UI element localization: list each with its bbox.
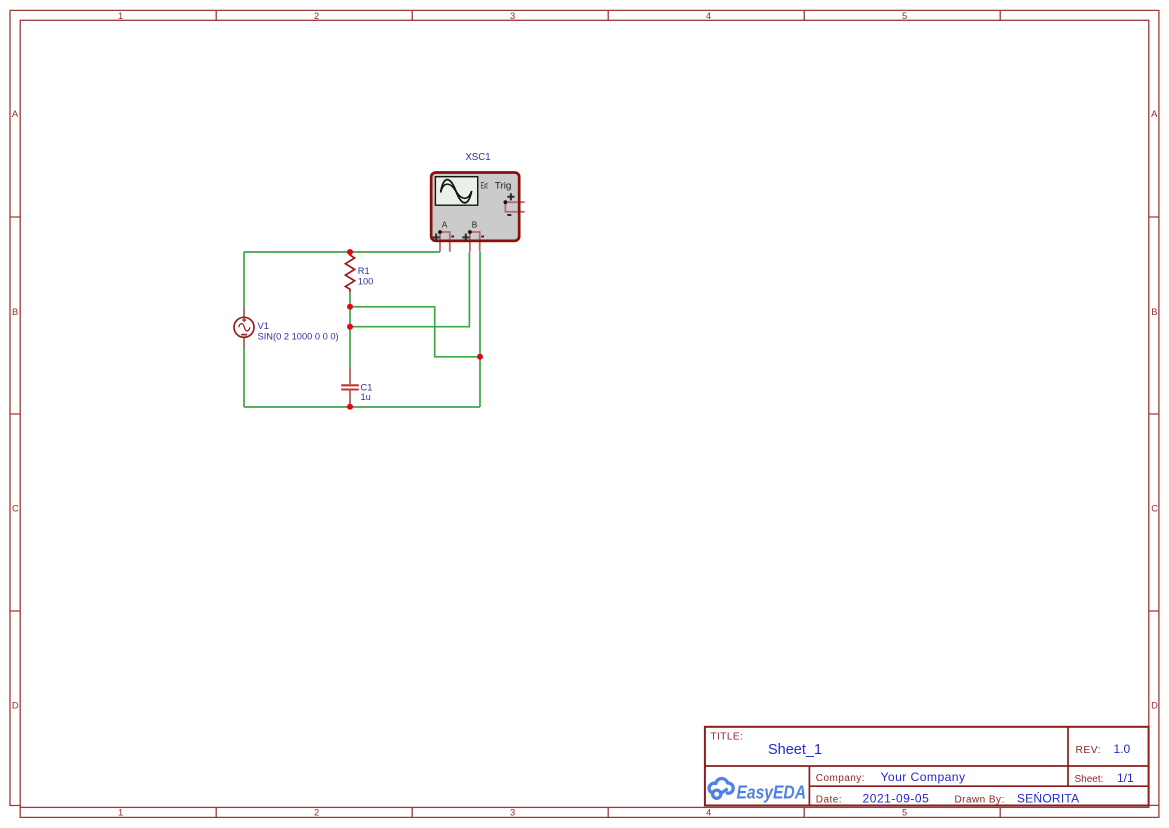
svg-text:Company:: Company: — [816, 773, 865, 784]
svg-text:XSC1: XSC1 — [465, 152, 490, 163]
svg-text:A: A — [12, 109, 19, 119]
svg-text:A: A — [442, 219, 448, 229]
svg-text:Sheet_1: Sheet_1 — [768, 742, 822, 758]
svg-text:Drawn By:: Drawn By: — [955, 794, 1005, 805]
svg-text:D: D — [1151, 701, 1158, 711]
svg-text:A: A — [1151, 109, 1158, 119]
svg-text:2021-09-05: 2021-09-05 — [863, 791, 930, 805]
svg-text:B: B — [1151, 307, 1157, 317]
svg-text:5: 5 — [902, 11, 907, 21]
svg-text:Ext: Ext — [481, 181, 488, 191]
svg-text:4: 4 — [706, 11, 711, 21]
svg-text:REV:: REV: — [1076, 745, 1102, 756]
svg-text:Date:: Date: — [816, 794, 842, 805]
svg-text:C: C — [1151, 504, 1158, 514]
svg-text:B: B — [472, 219, 478, 229]
svg-text:D: D — [12, 701, 19, 711]
svg-text:2: 2 — [314, 11, 319, 21]
svg-text:1: 1 — [118, 11, 123, 21]
svg-text:Trig: Trig — [495, 181, 512, 191]
svg-text:B: B — [12, 307, 18, 317]
svg-text:C1: C1 — [361, 383, 373, 393]
svg-text:Your Company: Your Company — [881, 770, 966, 784]
svg-text:C: C — [12, 504, 19, 514]
svg-text:TITLE:: TITLE: — [711, 732, 744, 743]
svg-text:4: 4 — [706, 807, 711, 817]
svg-text:V1: V1 — [258, 321, 269, 331]
svg-text:1.0: 1.0 — [1114, 742, 1131, 756]
svg-text:1/1: 1/1 — [1117, 771, 1134, 785]
svg-text:3: 3 — [510, 11, 515, 21]
svg-text:100: 100 — [358, 277, 374, 287]
svg-text:SIN(0 2 1000 0 0 0): SIN(0 2 1000 0 0 0) — [258, 332, 339, 342]
svg-text:Sheet:: Sheet: — [1075, 774, 1104, 785]
svg-text:SEŃORITA: SEŃORITA — [1017, 790, 1079, 805]
svg-text:3: 3 — [510, 807, 515, 817]
svg-text:5: 5 — [902, 807, 907, 817]
svg-text:R1: R1 — [358, 266, 370, 276]
svg-text:1u: 1u — [361, 392, 371, 402]
svg-text:EasyEDA: EasyEDA — [737, 783, 807, 803]
svg-text:1: 1 — [118, 807, 123, 817]
svg-text:2: 2 — [314, 807, 319, 817]
